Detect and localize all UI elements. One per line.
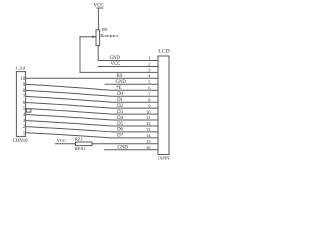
svg-text:2: 2 (148, 62, 150, 67)
wire: VCC stub to LCD pin2 (98, 66, 159, 68)
svg-text:10: 10 (146, 109, 151, 114)
svg-text:16PIN: 16PIN (158, 155, 170, 160)
svg-text:11: 11 (146, 115, 150, 120)
resistor RZ1 body (76, 142, 93, 146)
svg-text:D3: D3 (117, 110, 123, 115)
small box on CON10 pin5 wire (26, 109, 31, 112)
svg-text:VCC: VCC (57, 138, 66, 143)
svg-text:D1: D1 (117, 98, 123, 103)
svg-text:CON10: CON10 (13, 139, 29, 144)
svg-text:6: 6 (148, 86, 151, 91)
wire: CON10 pin8 to LCD pin7 (D0) (26, 90, 158, 96)
svg-text:D4: D4 (117, 116, 123, 121)
svg-text:R9: R9 (102, 27, 108, 32)
wire: GND stub to LCD pin16 (104, 149, 158, 151)
svg-text:*E: *E (116, 86, 121, 91)
resistor R9 Контраст (potentiometer body) (96, 30, 100, 46)
svg-text:GND: GND (110, 56, 121, 61)
wire: CON10 pin6 to LCD pin9 (D2) (26, 103, 158, 109)
wire: pot wiper to LCD pin3 (80, 37, 158, 73)
LCD pin numbers 1..16 (146, 56, 151, 150)
svg-text:15: 15 (146, 139, 151, 144)
wire: GND stub to LCD pin5 (105, 83, 159, 85)
wire: pot bottom to LCD pin1 (GND net) (98, 46, 158, 61)
svg-text:D0: D0 (117, 92, 123, 97)
wire: CON10 pin10 to LCD pin4 (RS) (26, 77, 158, 79)
wiper arrowhead (92, 35, 96, 38)
svg-text:VCC: VCC (111, 62, 121, 67)
LCD net labels (110, 56, 129, 150)
wire: CON10 pin9 to LCD pin6 (E) (26, 84, 158, 90)
svg-text:J_lcd: J_lcd (15, 66, 25, 71)
svg-text:4: 4 (148, 74, 151, 79)
svg-text:LCD: LCD (158, 48, 169, 54)
wire: CON10 pin5 to LCD pin10 (D3) (26, 109, 158, 115)
svg-text:VCC: VCC (94, 3, 105, 8)
svg-text:D7: D7 (117, 134, 123, 139)
svg-text:12: 12 (146, 121, 151, 126)
svg-text:GND: GND (117, 146, 128, 151)
svg-text:RES2: RES2 (75, 146, 86, 151)
svg-text:RS: RS (117, 74, 123, 79)
wire: VCC stub to resistor RZ1 (55, 143, 76, 145)
wire: CON10 pin3 to LCD pin12 (D5) (26, 121, 158, 126)
svg-text:8: 8 (148, 97, 151, 102)
svg-text:9: 9 (148, 103, 151, 108)
svg-text:3: 3 (148, 68, 151, 73)
svg-text:1: 1 (148, 56, 150, 61)
svg-text:D6: D6 (117, 128, 123, 133)
connector CON10 box (16, 72, 25, 137)
svg-text:16: 16 (146, 145, 151, 150)
wire: CON10 pin1 to LCD pin14 (D7) (26, 133, 158, 138)
svg-text:5: 5 (148, 80, 151, 85)
svg-text:GND: GND (116, 80, 127, 85)
wire: CON10 pin7 to LCD pin8 (D1) (26, 96, 158, 102)
svg-text:D5: D5 (117, 122, 123, 127)
power VCC (top) (97, 8, 104, 30)
svg-text:13: 13 (146, 127, 151, 132)
wire: CON10 pin2 to LCD pin13 (D6) (26, 127, 158, 132)
svg-text:RZ1: RZ1 (75, 136, 84, 141)
svg-text:14: 14 (146, 133, 151, 138)
svg-text:Контраст: Контраст (100, 33, 118, 38)
wire: CON10 pin4 to LCD pin11 (D4) (26, 115, 158, 121)
svg-text:D2: D2 (117, 104, 123, 109)
svg-text:7: 7 (148, 91, 151, 96)
CON10 pin numbers 10..1 (20, 77, 25, 136)
wire: resistor RZ1 to LCD pin15 (92, 143, 158, 145)
svg-text:10: 10 (20, 77, 25, 82)
connector LCD box (158, 56, 169, 155)
